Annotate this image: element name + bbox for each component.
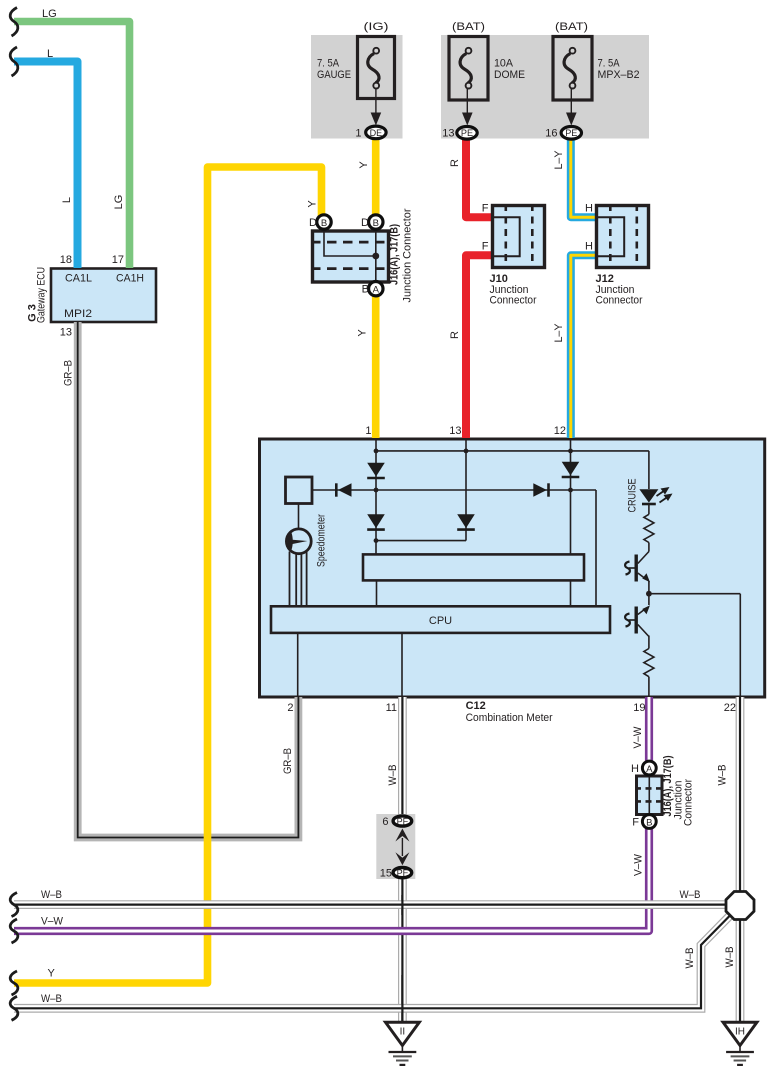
svg-text:Y: Y <box>48 968 56 980</box>
svg-text:16: 16 <box>545 128 557 140</box>
fuse element MPX-B2 <box>564 54 575 84</box>
svg-text:10A: 10A <box>494 58 514 70</box>
wire W-B pin 11 black core restored <box>401 895 403 1021</box>
svg-text:11: 11 <box>386 702 397 714</box>
ground II <box>386 1022 420 1045</box>
svg-text:1: 1 <box>365 425 371 437</box>
svg-text:22: 22 <box>724 702 736 714</box>
wire L-Y J12 to meter pin 12 <box>571 255 596 438</box>
svg-text:LG: LG <box>42 8 57 20</box>
svg-text:PF: PF <box>397 868 409 879</box>
junction connector J16(A) J17(B) bottom box <box>637 776 663 815</box>
svg-text:L: L <box>61 197 73 203</box>
svg-text:D: D <box>361 217 369 229</box>
fuse element GAUGE <box>368 54 379 84</box>
junction dot pin1 rail <box>374 449 379 454</box>
diode D2 down (pin 1 lower) <box>367 514 385 528</box>
J12 internal dashed columns <box>609 204 612 269</box>
svg-text:II: II <box>400 1027 406 1038</box>
fuse block gray band (IG) <box>311 35 403 139</box>
wire LG green to ECU CA1H <box>14 22 130 269</box>
svg-text:MPI2: MPI2 <box>64 308 92 320</box>
junction dot pin13 rail <box>464 449 469 454</box>
svg-text:W–B: W–B <box>717 765 729 786</box>
square to speedometer link <box>298 504 300 530</box>
svg-text:PE: PE <box>565 128 577 139</box>
svg-text:LG: LG <box>113 195 125 210</box>
svg-text:15: 15 <box>380 868 392 880</box>
continuation squiggle W-B bottom rail <box>10 996 18 1020</box>
wire Y long (bottom-left to junction connector pin B) <box>14 167 322 983</box>
diode D1 down (pin 1 upper) <box>367 463 385 477</box>
svg-text:W–B: W–B <box>724 947 736 968</box>
wire GR-B from ECU pin13 to meter pin 2 <box>78 322 299 838</box>
svg-text:CA1L: CA1L <box>65 273 92 285</box>
wire W-B top rail to splice <box>14 900 727 909</box>
svg-text:W–B: W–B <box>41 993 62 1005</box>
continuation squiggle Y rail <box>10 971 18 995</box>
svg-text:H: H <box>585 203 593 215</box>
svg-text:6: 6 <box>382 816 388 828</box>
svg-text:DOME: DOME <box>494 69 525 81</box>
terminal B circle <box>642 815 656 829</box>
resistor to pin 19 line <box>648 677 650 696</box>
svg-text:Junction Connector: Junction Connector <box>402 208 414 302</box>
J16 top internal links <box>324 231 376 282</box>
svg-text:13: 13 <box>449 425 461 437</box>
continuation squiggle L <box>10 47 18 76</box>
svg-text:Y: Y <box>358 161 370 169</box>
svg-text:R: R <box>449 331 461 339</box>
meter pin 12 internal line <box>570 440 572 554</box>
meter middle register bar <box>363 554 584 580</box>
LED to resistor line <box>648 504 650 514</box>
continuation squiggle W-B top rail <box>10 893 18 917</box>
diode right-pointing <box>533 483 547 496</box>
wire W-B meter pin 22 to splice <box>736 697 745 892</box>
fuse MPX-B2 output arrow <box>570 89 572 115</box>
junction dot diode row right <box>568 488 573 493</box>
svg-text:F: F <box>482 241 489 253</box>
middle bar to CPU links <box>377 580 571 606</box>
wire W-B bottom rail to splice diagonal <box>14 916 730 1008</box>
svg-text:H: H <box>585 241 593 253</box>
fuse 7.5A GAUGE box <box>358 37 395 99</box>
speedometer to CPU lines <box>290 552 307 607</box>
wire L-Y fuse MPX-B2 to J12 <box>571 136 596 217</box>
terminal B circle right <box>369 215 383 229</box>
junction dot diode row left <box>374 488 379 493</box>
node dot Q1-Q2 <box>646 591 652 597</box>
LED emission arrows <box>657 491 665 497</box>
svg-text:Connector: Connector <box>490 295 537 307</box>
fuse 10A DOME box <box>449 37 488 101</box>
diode left-pointing <box>338 483 352 496</box>
J10 internal jumper rect <box>493 217 520 256</box>
speedometer gauge icon <box>286 529 311 554</box>
diode down (pin 12) <box>562 462 580 476</box>
junction connector J16(A) J17(B) top box <box>313 231 389 282</box>
svg-text:V–W: V–W <box>633 853 645 876</box>
svg-text:R: R <box>449 159 461 167</box>
svg-text:13: 13 <box>60 327 72 339</box>
PF arrow up <box>395 829 409 842</box>
svg-text:Connector: Connector <box>683 779 695 826</box>
meter pin 13 internal line <box>465 440 467 541</box>
svg-text:A: A <box>646 764 653 775</box>
transistor Q2 <box>635 607 638 634</box>
svg-text:19: 19 <box>633 702 645 714</box>
resistor to Q1 line <box>648 543 650 552</box>
transistor Q1 <box>635 555 638 582</box>
svg-text:W–B: W–B <box>684 948 696 969</box>
sensor square icon <box>286 477 313 504</box>
Q1 emitter to node <box>648 581 650 605</box>
diode down (pin 13) <box>457 514 475 528</box>
svg-text:(BAT): (BAT) <box>555 21 588 33</box>
junction connector J12 box <box>597 206 649 268</box>
svg-text:J16(A), J17(B): J16(A), J17(B) <box>389 224 401 285</box>
svg-text:7. 5A: 7. 5A <box>317 58 340 70</box>
resistor R1 <box>644 514 654 542</box>
fuse 7.5A MPX-B2 box <box>553 37 592 101</box>
fuse GAUGE output arrow <box>375 89 377 115</box>
cruise LED feed line <box>648 451 650 489</box>
svg-text:1: 1 <box>355 128 361 140</box>
gateway ECU box G3 <box>51 269 156 323</box>
svg-text:F: F <box>482 203 489 215</box>
svg-text:W–B: W–B <box>41 889 62 901</box>
terminal 6 PF oval <box>393 816 412 826</box>
CPU bar <box>271 606 610 633</box>
wire R fuse DOME to J10 <box>466 136 492 217</box>
wire Y fuse IG to junction connector <box>372 136 380 218</box>
J16 bottom internal grid <box>648 776 650 815</box>
ground IH <box>723 1022 757 1045</box>
svg-text:L–Y: L–Y <box>553 150 565 170</box>
CPU to pin 11 line <box>401 633 403 696</box>
terminal 1 DE oval <box>366 126 386 139</box>
svg-text:W–B: W–B <box>680 889 701 901</box>
fuse element DOME <box>460 54 471 84</box>
node to pin 22 line <box>649 594 740 696</box>
svg-text:12: 12 <box>554 425 566 437</box>
svg-text:B: B <box>646 818 652 829</box>
J12 internal jumper rect <box>597 217 625 256</box>
junction connector J10 box <box>493 206 545 268</box>
svg-text:CRUISE: CRUISE <box>627 479 639 513</box>
terminal 16 PE oval <box>561 127 581 140</box>
svg-text:F: F <box>632 817 639 829</box>
svg-text:V–W: V–W <box>632 726 644 749</box>
svg-text:C12: C12 <box>466 700 486 712</box>
wire Y junction connector to meter pin 1 <box>372 284 380 438</box>
CPU to pin 2 line <box>297 633 299 696</box>
svg-text:B: B <box>373 218 379 229</box>
junction dot pin12 rail <box>568 449 573 454</box>
wire V-W meter pin 19 to bottom rail <box>14 697 649 931</box>
splice octagon <box>726 892 754 920</box>
svg-text:GR–B: GR–B <box>282 748 294 774</box>
svg-text:GAUGE: GAUGE <box>317 69 351 81</box>
J16 top junction dot <box>372 253 379 260</box>
svg-text:17: 17 <box>112 254 124 266</box>
wire W-B meter pin 11 to ground II <box>398 697 407 1021</box>
cruise LED <box>639 489 658 502</box>
svg-text:L–Y: L–Y <box>553 323 565 343</box>
svg-text:13: 13 <box>442 128 454 140</box>
continuation squiggle LG <box>10 8 18 37</box>
wire W-B splice to ground IH <box>736 918 745 1021</box>
svg-text:Combination Meter: Combination Meter <box>466 712 553 724</box>
J16 top internal dashed rows <box>311 241 390 244</box>
svg-text:PE: PE <box>461 128 473 139</box>
svg-text:CPU: CPU <box>429 615 452 627</box>
fuse DOME output arrow <box>466 89 468 115</box>
svg-text:18: 18 <box>60 254 72 266</box>
svg-text:(IG): (IG) <box>364 21 389 33</box>
meter internal top rail <box>376 450 649 452</box>
meter internal row through diodes to CPU <box>312 490 596 606</box>
svg-text:PF: PF <box>397 817 409 828</box>
terminal A circle bottom <box>369 282 383 296</box>
svg-text:Gateway ECU: Gateway ECU <box>36 267 48 323</box>
terminal 13 PE oval <box>457 127 477 140</box>
junction dot link row <box>374 538 379 543</box>
svg-text:MPX–B2: MPX–B2 <box>598 69 640 81</box>
resistor R2 <box>644 649 654 677</box>
combination meter box C12 <box>260 439 765 697</box>
svg-text:(BAT): (BAT) <box>452 21 485 33</box>
Q2 collector to resistor <box>648 636 650 649</box>
svg-text:V–W: V–W <box>41 916 64 928</box>
wire L blue to ECU CA1L <box>14 62 78 269</box>
svg-text:H: H <box>631 763 639 775</box>
svg-text:GR–B: GR–B <box>63 360 75 386</box>
svg-text:Y: Y <box>357 329 369 337</box>
terminal A circle <box>642 761 656 775</box>
terminal B circle left <box>317 215 331 229</box>
fuse block gray band (BAT) <box>441 35 649 139</box>
svg-text:Connector: Connector <box>596 295 643 307</box>
svg-text:7. 5A: 7. 5A <box>598 58 621 70</box>
svg-text:CA1H: CA1H <box>116 273 144 285</box>
meter internal link row under diodes <box>376 540 466 542</box>
connector PF gray block <box>376 814 415 879</box>
svg-text:Speedometer: Speedometer <box>316 514 328 567</box>
svg-text:2: 2 <box>287 702 293 714</box>
PF arrow down <box>395 852 409 865</box>
svg-text:DE: DE <box>370 128 383 139</box>
svg-text:B: B <box>362 284 369 296</box>
svg-text:B: B <box>321 218 327 229</box>
svg-text:L: L <box>47 48 53 60</box>
svg-text:W–B: W–B <box>387 765 399 786</box>
J10 internal dashed columns <box>504 204 507 269</box>
svg-text:Y: Y <box>307 200 319 208</box>
wire R J10 to meter pin 13 <box>466 255 492 438</box>
meter pin 1 internal line <box>375 440 377 554</box>
PF link line <box>401 838 403 856</box>
terminal 15 PF oval <box>393 868 412 878</box>
svg-text:IH: IH <box>735 1027 745 1038</box>
continuation squiggle V-W rail <box>10 919 18 943</box>
svg-text:D: D <box>309 217 317 229</box>
svg-text:A: A <box>373 285 380 296</box>
